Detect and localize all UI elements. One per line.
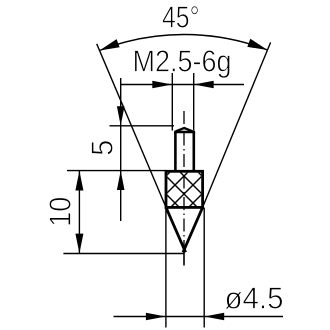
arc arrow left bbox=[100, 39, 120, 50]
dimension arc 45 degrees bbox=[100, 35, 268, 51]
arc arrow right bbox=[247, 39, 267, 50]
thread dimension line bbox=[121, 84, 244, 86]
thread extension line left bbox=[171, 73, 173, 131]
cone bbox=[166, 207, 186, 252]
centerline tip segment bbox=[183, 249, 185, 266]
stud chamfer dome bbox=[176, 128, 193, 131]
dim 10 arrow down bbox=[75, 234, 83, 254]
diameter arrow left bbox=[146, 313, 166, 321]
svg-text:ø4.5: ø4.5 bbox=[225, 281, 284, 315]
body crosshatch bbox=[132, 170, 236, 210]
dim 5 arrow down bbox=[117, 106, 125, 126]
body top extension line (5 dim bottom / 10 dim top) bbox=[67, 170, 166, 172]
cone flank extension line left bbox=[97, 44, 166, 208]
cone flank extension line right bbox=[203, 42, 271, 207]
diameter dimension line bbox=[114, 316, 284, 318]
svg-text:M2.5-6g: M2.5-6g bbox=[133, 44, 232, 78]
dim 10 arrow up bbox=[75, 171, 83, 191]
thread arrow left bbox=[152, 81, 172, 89]
dim 5 arrow up bbox=[117, 171, 125, 190]
diameter extension line left bbox=[165, 209, 167, 328]
stud outline bbox=[174, 132, 177, 171]
svg-text:10: 10 bbox=[44, 197, 78, 227]
diameter extension line right bbox=[203, 208, 205, 328]
stud top extension line (5 dim top) bbox=[110, 125, 175, 127]
dim 5 line bbox=[120, 78, 122, 221]
svg-text:45°: 45° bbox=[162, 1, 200, 35]
thread extension line right bbox=[193, 73, 195, 131]
svg-text:5: 5 bbox=[86, 140, 120, 156]
dim 10 line bbox=[78, 171, 80, 254]
body outline bbox=[166, 171, 203, 207]
tip extension line (10 dim bottom) bbox=[63, 253, 184, 255]
diameter arrow right bbox=[204, 313, 224, 321]
centerline bbox=[183, 111, 185, 248]
thread arrow right bbox=[194, 81, 214, 89]
